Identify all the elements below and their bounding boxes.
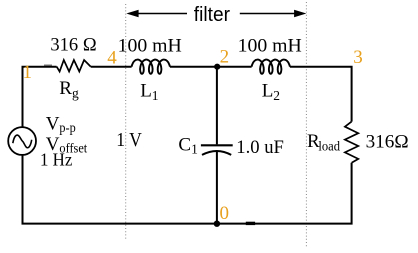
svg-text:filter: filter: [194, 4, 231, 26]
svg-text:2: 2: [220, 47, 230, 68]
svg-text:0: 0: [220, 203, 230, 224]
svg-text:1 V: 1 V: [116, 129, 142, 151]
svg-text:1 Hz: 1 Hz: [40, 150, 73, 170]
svg-text:100 mH: 100 mH: [238, 35, 302, 56]
svg-text:316 Ω: 316 Ω: [50, 35, 96, 56]
svg-text:316Ω: 316Ω: [366, 131, 409, 152]
svg-text:1: 1: [23, 62, 33, 83]
svg-text:100 mH: 100 mH: [118, 35, 182, 56]
svg-text:3: 3: [353, 47, 363, 68]
svg-text:1.0 uF: 1.0 uF: [236, 137, 284, 158]
svg-text:4: 4: [107, 47, 117, 68]
svg-text:load: load: [318, 139, 340, 154]
